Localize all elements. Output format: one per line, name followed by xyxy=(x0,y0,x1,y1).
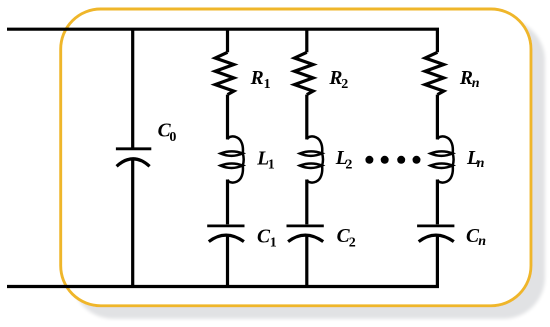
resistor Rn xyxy=(425,52,444,94)
node C0 branch wire top xyxy=(131,29,134,149)
svg-text:R: R xyxy=(250,68,264,89)
wire branch2 top xyxy=(305,29,308,52)
wire branch1 mid1 xyxy=(226,95,229,140)
svg-text:1: 1 xyxy=(270,235,277,250)
label L1 xyxy=(256,148,275,172)
capacitor C0 xyxy=(116,149,151,167)
svg-text:n: n xyxy=(478,234,486,249)
svg-text:2: 2 xyxy=(341,77,348,92)
svg-text:1: 1 xyxy=(264,77,271,92)
capacitor Cn xyxy=(417,226,454,242)
label C1 xyxy=(257,226,277,250)
capacitor C2 xyxy=(287,226,324,242)
label Rn xyxy=(459,68,480,91)
wire bottom rail xyxy=(7,234,437,286)
svg-text:n: n xyxy=(472,76,480,91)
wire C0 branch bottom xyxy=(131,158,134,286)
capacitor C1 xyxy=(207,226,244,242)
label R2 xyxy=(328,68,348,92)
wire branch2 bottom xyxy=(305,234,308,286)
svg-text:2: 2 xyxy=(349,235,356,250)
label Ln xyxy=(466,148,485,171)
inductor L2 xyxy=(300,136,323,182)
label L2 xyxy=(335,148,353,173)
svg-text:1: 1 xyxy=(268,157,275,172)
label R1 xyxy=(250,68,271,92)
wire branchN mid2 xyxy=(436,180,439,225)
wire branchN mid1 xyxy=(436,95,439,140)
wire branch1 mid2 xyxy=(226,180,229,225)
ellipsis dots xyxy=(365,156,420,164)
label Cn xyxy=(466,226,486,249)
wire branch2 mid2 xyxy=(305,180,308,225)
wire branch1 top xyxy=(226,29,229,52)
label C2 xyxy=(337,226,356,250)
inductor Ln xyxy=(430,136,453,182)
wire branch1 bottom xyxy=(226,234,229,286)
wire branch2 mid1 xyxy=(305,95,308,140)
inductor L1 xyxy=(221,136,244,182)
svg-text:n: n xyxy=(477,156,485,171)
svg-text:2: 2 xyxy=(345,158,352,173)
svg-text:0: 0 xyxy=(169,130,176,145)
wire top rail xyxy=(7,29,437,52)
label C0 xyxy=(158,120,177,145)
resistor R2 xyxy=(295,52,314,94)
resistor R1 xyxy=(215,52,234,94)
